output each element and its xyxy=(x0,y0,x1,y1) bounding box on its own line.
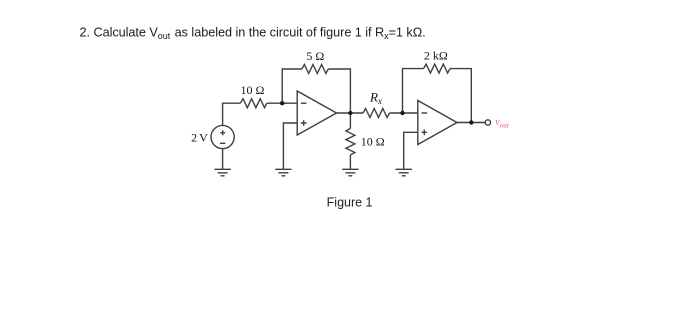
resistor R_in 10 ohm (horizontal) xyxy=(240,99,267,108)
junction node D (U2 output) xyxy=(469,120,473,124)
wire: U2 output to terminal xyxy=(457,122,485,124)
resistor Rx xyxy=(363,109,389,118)
output terminal circle xyxy=(485,120,490,125)
svg-text:10 Ω: 10 Ω xyxy=(241,83,265,97)
op-amp U1 xyxy=(297,91,336,135)
junction node A (inverting input U1) xyxy=(280,101,284,105)
wire: feedback left vertical + top to 5 ohm xyxy=(282,69,302,103)
V1 minus mark xyxy=(220,142,225,144)
junction node C (inverting input U2) xyxy=(400,111,404,115)
svg-text:5 Ω: 5 Ω xyxy=(306,49,324,63)
svg-text:10 Ω: 10 Ω xyxy=(361,134,385,148)
wire: vertical 10 ohm to ground xyxy=(349,155,351,169)
svg-text:Figure 1: Figure 1 xyxy=(327,195,373,209)
U2 plus mark xyxy=(422,130,428,136)
wire: 2k feedback left vertical xyxy=(403,69,424,113)
wire: U1 output to node and on to Rx xyxy=(337,112,364,114)
svg-text:2. Calculate Vout as labeled i: 2. Calculate Vout as labeled in the circ… xyxy=(80,26,426,41)
wire: Rx to op-amp U2 inverting input xyxy=(390,112,418,114)
voltage source V1 (2 V) xyxy=(211,125,234,148)
U2 minus mark xyxy=(422,112,428,114)
V1 plus mark xyxy=(220,130,225,135)
wire: U1 non-inverting input to ground xyxy=(283,123,297,169)
U1 plus mark xyxy=(301,120,307,126)
op-amp U2 xyxy=(418,101,457,145)
wire: U2 non-inverting input to ground xyxy=(404,132,418,169)
wire: resistor to op-amp U1 inverting input xyxy=(267,102,297,104)
ground G2 (U1 +) xyxy=(275,169,291,176)
wire: source bottom to ground xyxy=(222,149,224,169)
ground G3 (10 ohm) xyxy=(342,169,358,176)
ground G1 (source) xyxy=(214,169,230,176)
resistor R_load 10 ohm (vertical) xyxy=(346,128,355,155)
wire: 5 ohm to output node vertical xyxy=(328,69,350,113)
resistor Rf2 2 kohm xyxy=(424,64,450,73)
wire: 2k to output vertical xyxy=(450,69,471,123)
junction node B (U1 output) xyxy=(348,111,352,115)
svg-text:2 kΩ: 2 kΩ xyxy=(424,49,448,63)
resistor Rf1 5 ohm (feedback) xyxy=(302,65,328,74)
U1 minus mark xyxy=(301,102,307,104)
wire: source top to input rail xyxy=(223,103,241,125)
wire: output node down to vertical 10 ohm xyxy=(349,113,351,128)
ground G4 (U2 +) xyxy=(396,169,412,176)
svg-text:2 V: 2 V xyxy=(191,131,208,145)
